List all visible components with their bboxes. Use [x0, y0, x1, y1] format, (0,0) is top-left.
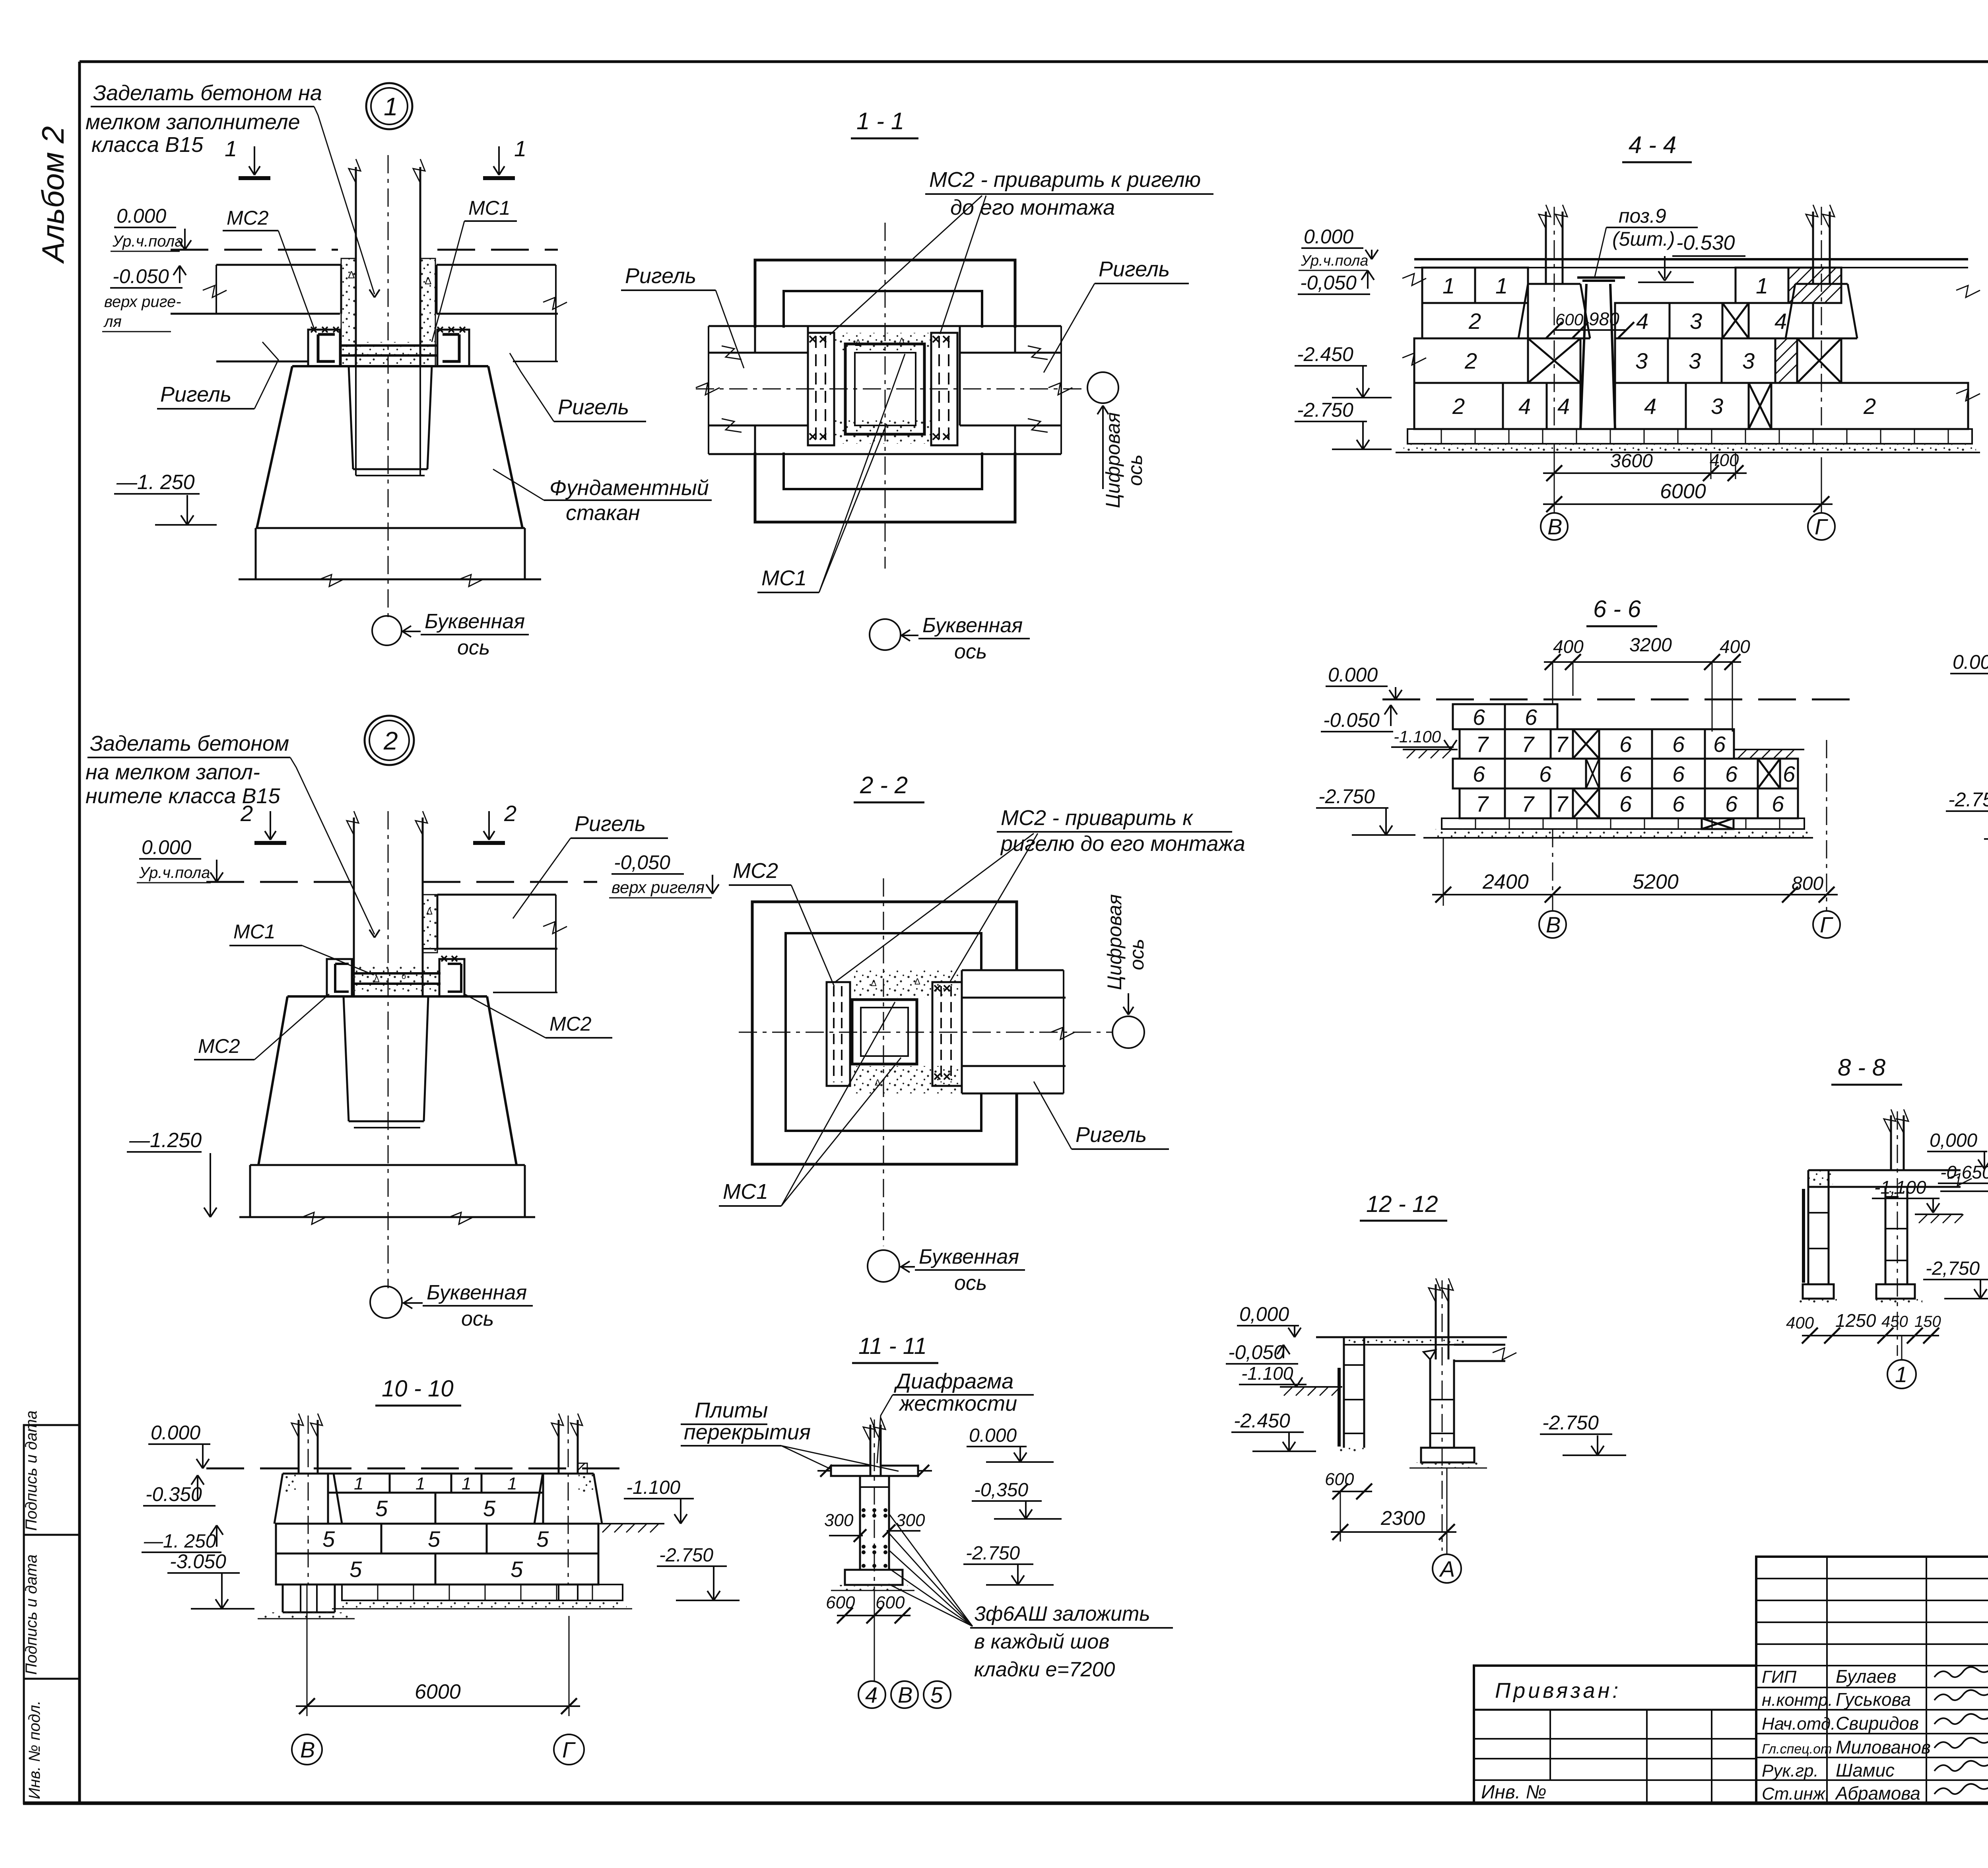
svg-text:Ур.ч.пола: Ур.ч.пола	[112, 233, 183, 250]
svg-text:на мелком запол-: на мелком запол-	[85, 760, 260, 784]
svg-text:-0,050: -0,050	[1228, 1341, 1285, 1363]
svg-text:5: 5	[428, 1526, 441, 1551]
svg-text:МС2: МС2	[227, 207, 269, 229]
svg-text:4: 4	[865, 1682, 878, 1707]
svg-text:ось: ось	[954, 1272, 987, 1295]
svg-text:3: 3	[1635, 348, 1648, 373]
svg-text:Инв. № подл.: Инв. № подл.	[26, 1701, 43, 1799]
svg-text:Милованов: Милованов	[1836, 1737, 1931, 1757]
svg-text:-1.100: -1.100	[626, 1477, 680, 1498]
svg-text:12 - 12: 12 - 12	[1366, 1191, 1438, 1217]
svg-text:Буквенная: Буквенная	[425, 610, 525, 633]
svg-text:верх ригеля: верх ригеля	[612, 878, 705, 897]
svg-text:4: 4	[1774, 309, 1787, 334]
svg-text:Подпись и дата: Подпись и дата	[23, 1554, 40, 1675]
svg-text:ля: ля	[103, 313, 122, 330]
svg-text:1: 1	[354, 1474, 363, 1493]
svg-text:0.000: 0.000	[1328, 664, 1378, 686]
svg-text:МС2: МС2	[733, 859, 778, 883]
svg-text:3200: 3200	[1629, 635, 1672, 656]
svg-text:6: 6	[1725, 761, 1738, 786]
svg-text:1: 1	[462, 1474, 471, 1493]
svg-text:5: 5	[322, 1526, 335, 1551]
svg-text:1 - 1: 1 - 1	[856, 108, 904, 134]
svg-text:МС1: МС1	[468, 197, 511, 219]
svg-text:Ур.ч.пола: Ур.ч.пола	[1301, 252, 1369, 269]
svg-text:600: 600	[1325, 1470, 1354, 1489]
svg-text:-2.750: -2.750	[1948, 788, 1988, 811]
svg-text:300: 300	[824, 1511, 854, 1530]
svg-text:6: 6	[1619, 732, 1632, 757]
svg-text:6 - 6: 6 - 6	[1593, 596, 1641, 622]
svg-text:-0,050: -0,050	[1300, 272, 1357, 294]
svg-text:6: 6	[1619, 791, 1632, 816]
svg-text:стакан: стакан	[566, 501, 640, 525]
svg-text:Гуськова: Гуськова	[1836, 1689, 1911, 1710]
svg-text:-2.750: -2.750	[1542, 1412, 1599, 1434]
svg-text:ось: ось	[1126, 939, 1148, 970]
svg-text:Рук.гр.: Рук.гр.	[1762, 1761, 1819, 1781]
svg-text:В: В	[1546, 912, 1561, 937]
svg-text:1: 1	[514, 136, 526, 161]
svg-text:-2.450: -2.450	[1234, 1410, 1290, 1432]
svg-text:-2.750: -2.750	[1318, 785, 1375, 808]
svg-text:Инв. №: Инв. №	[1481, 1782, 1546, 1803]
svg-text:ось: ось	[457, 636, 490, 659]
svg-text:0,000: 0,000	[1930, 1130, 1977, 1151]
svg-text:мелком заполнителе: мелком заполнителе	[85, 110, 300, 134]
svg-text:7: 7	[1555, 791, 1569, 816]
svg-text:1: 1	[1495, 273, 1508, 298]
svg-text:Гл.спец.от: Гл.спец.от	[1762, 1742, 1832, 1757]
svg-text:-0,050: -0,050	[614, 851, 670, 874]
svg-text:МС2: МС2	[198, 1035, 240, 1057]
svg-text:2: 2	[240, 801, 253, 826]
svg-text:400: 400	[1553, 636, 1584, 657]
svg-text:7: 7	[1522, 732, 1535, 757]
svg-text:Ригель: Ригель	[1076, 1123, 1147, 1147]
svg-text:7: 7	[1476, 732, 1489, 757]
svg-text:Буквенная: Буквенная	[919, 1245, 1019, 1268]
svg-text:Ригель: Ригель	[1099, 257, 1170, 281]
svg-text:Нач.отд.: Нач.отд.	[1762, 1714, 1835, 1734]
svg-text:2: 2	[1452, 394, 1465, 419]
svg-text:6: 6	[1772, 791, 1784, 816]
svg-text:6: 6	[1783, 761, 1796, 786]
svg-text:6: 6	[1672, 791, 1685, 816]
svg-text:кладки е=7200: кладки е=7200	[974, 1658, 1115, 1681]
svg-text:980: 980	[1589, 309, 1619, 329]
svg-text:7: 7	[1522, 791, 1535, 816]
svg-text:3600: 3600	[1610, 450, 1653, 472]
svg-text:2: 2	[504, 801, 516, 826]
svg-text:300: 300	[896, 1511, 925, 1530]
svg-text:1: 1	[1895, 1362, 1907, 1387]
svg-text:1: 1	[1442, 273, 1455, 298]
svg-text:Заделать бетоном: Заделать бетоном	[90, 732, 289, 755]
svg-text:Цифровая: Цифровая	[1102, 412, 1124, 508]
svg-text:6: 6	[1672, 761, 1685, 786]
svg-text:5: 5	[930, 1682, 943, 1707]
svg-text:0.000: 0.000	[1304, 225, 1353, 248]
svg-text:Буквенная: Буквенная	[922, 614, 1023, 637]
svg-text:Δ: Δ	[348, 269, 355, 281]
svg-text:6000: 6000	[415, 1680, 461, 1703]
svg-text:-2.750: -2.750	[1297, 399, 1353, 421]
svg-text:400: 400	[1720, 636, 1750, 657]
svg-text:-2.750: -2.750	[966, 1543, 1020, 1564]
svg-text:(5шт.): (5шт.)	[1612, 228, 1675, 250]
svg-text:4: 4	[1636, 309, 1648, 334]
svg-text:5: 5	[349, 1557, 362, 1582]
svg-text:6000: 6000	[1660, 480, 1706, 503]
svg-text:1: 1	[384, 92, 398, 121]
svg-text:7: 7	[1476, 791, 1489, 816]
svg-text:6: 6	[1539, 761, 1552, 786]
svg-text:ось: ось	[954, 640, 987, 663]
svg-text:-0.530: -0.530	[1676, 231, 1735, 254]
svg-text:6: 6	[1619, 761, 1632, 786]
svg-text:МС2: МС2	[549, 1013, 592, 1035]
svg-text:450: 450	[1881, 1313, 1908, 1330]
svg-text:-0.050: -0.050	[113, 265, 169, 287]
svg-text:В: В	[898, 1682, 912, 1707]
svg-text:800: 800	[1792, 873, 1823, 894]
svg-text:Δ: Δ	[426, 906, 433, 917]
svg-text:6: 6	[1473, 761, 1485, 786]
svg-text:В: В	[1547, 514, 1562, 539]
svg-text:Свиридов: Свиридов	[1836, 1713, 1919, 1734]
svg-text:1: 1	[1756, 273, 1768, 298]
svg-text:1: 1	[507, 1474, 517, 1493]
svg-text:Ригель: Ригель	[625, 264, 696, 288]
svg-text:2: 2	[1464, 348, 1477, 373]
svg-text:Альбом 2: Альбом 2	[35, 126, 70, 264]
svg-text:Δ: Δ	[871, 978, 877, 988]
svg-text:Заделать бетоном на: Заделать бетоном на	[93, 81, 322, 105]
svg-text:0.000: 0.000	[151, 1421, 200, 1444]
svg-text:0.000: 0.000	[142, 836, 191, 858]
svg-text:-2,750: -2,750	[1926, 1258, 1980, 1279]
svg-text:3: 3	[1689, 348, 1701, 373]
svg-text:МС1: МС1	[761, 566, 807, 590]
svg-text:-1.100: -1.100	[1394, 727, 1441, 746]
svg-text:2: 2	[1863, 394, 1876, 419]
svg-text:400: 400	[1710, 450, 1739, 470]
svg-text:-3.050: -3.050	[170, 1550, 226, 1573]
svg-text:Шамис: Шамис	[1836, 1760, 1895, 1781]
svg-text:0,000: 0,000	[1239, 1303, 1289, 1325]
svg-text:Ур.ч.пола: Ур.ч.пола	[139, 864, 210, 882]
svg-text:А: А	[1439, 1556, 1455, 1581]
svg-text:2: 2	[383, 726, 398, 755]
svg-text:Δ: Δ	[914, 977, 920, 986]
svg-text:класса В15: класса В15	[91, 133, 204, 157]
svg-text:ГИП: ГИП	[1762, 1667, 1796, 1687]
svg-text:МС2 - приварить к: МС2 - приварить к	[1001, 806, 1194, 830]
svg-text:6: 6	[1713, 732, 1726, 757]
svg-text:Г: Г	[1815, 514, 1828, 539]
svg-text:—1. 250: —1. 250	[144, 1531, 216, 1552]
svg-text:Буквенная: Буквенная	[427, 1281, 527, 1304]
svg-text:верх риге-: верх риге-	[104, 293, 181, 311]
svg-text:400: 400	[1786, 1313, 1814, 1332]
svg-text:1250: 1250	[1835, 1310, 1876, 1331]
svg-text:Г: Г	[1820, 912, 1833, 937]
svg-text:1: 1	[415, 1474, 425, 1493]
svg-text:Ст.инж.: Ст.инж.	[1762, 1784, 1830, 1804]
svg-text:5: 5	[483, 1496, 496, 1521]
svg-text:3: 3	[1742, 348, 1755, 373]
svg-text:2 - 2: 2 - 2	[860, 772, 908, 798]
svg-text:Диафрагма: Диафрагма	[894, 1369, 1013, 1393]
svg-text:-0,350: -0,350	[974, 1480, 1028, 1501]
svg-text:Цифровая: Цифровая	[1103, 894, 1126, 990]
svg-text:-0.350: -0.350	[146, 1483, 202, 1505]
svg-text:-0.050: -0.050	[1323, 709, 1380, 731]
svg-text:1: 1	[225, 136, 237, 161]
svg-text:5: 5	[536, 1526, 549, 1551]
svg-text:150: 150	[1914, 1313, 1941, 1330]
svg-text:4: 4	[1557, 394, 1570, 419]
svg-text:2400: 2400	[1482, 870, 1529, 893]
svg-text:в каждый шов: в каждый шов	[974, 1630, 1109, 1653]
svg-text:Булаев: Булаев	[1836, 1666, 1897, 1687]
svg-text:10 - 10: 10 - 10	[382, 1376, 454, 1402]
svg-text:0.000: 0.000	[969, 1425, 1017, 1446]
svg-text:В: В	[300, 1737, 315, 1762]
svg-text:Г: Г	[562, 1737, 576, 1762]
svg-text:3ф6АШ заложить: 3ф6АШ заложить	[974, 1602, 1150, 1625]
svg-text:Δ: Δ	[425, 275, 431, 287]
svg-text:2300: 2300	[1380, 1507, 1425, 1529]
svg-text:6: 6	[1525, 705, 1538, 730]
svg-text:5: 5	[511, 1557, 523, 1582]
svg-text:5200: 5200	[1633, 870, 1679, 893]
svg-text:МС1: МС1	[723, 1180, 768, 1204]
svg-text:н.контр.: н.контр.	[1762, 1690, 1833, 1710]
svg-text:МС1: МС1	[233, 920, 276, 943]
svg-text:8 - 8: 8 - 8	[1838, 1054, 1886, 1081]
svg-text:7: 7	[1555, 732, 1569, 757]
svg-text:600: 600	[1555, 310, 1584, 329]
svg-text:Привязан:: Привязан:	[1495, 1679, 1621, 1703]
svg-text:—1. 250: —1. 250	[116, 471, 195, 494]
svg-text:3: 3	[1690, 309, 1702, 334]
svg-text:до его монтажа: до его монтажа	[950, 196, 1115, 219]
svg-text:Фундаментный: Фундаментный	[549, 476, 709, 500]
svg-text:0.000: 0.000	[116, 205, 166, 227]
svg-text:Ригель: Ригель	[160, 383, 231, 406]
svg-text:-2.450: -2.450	[1297, 343, 1353, 365]
svg-text:6: 6	[1725, 791, 1738, 816]
svg-text:2: 2	[1468, 309, 1481, 334]
svg-text:-0.650: -0.650	[1940, 1162, 1988, 1183]
svg-text:4 - 4: 4 - 4	[1629, 132, 1676, 158]
svg-text:поз.9: поз.9	[1619, 205, 1666, 227]
svg-text:3: 3	[1711, 394, 1723, 419]
svg-text:-1.100: -1.100	[1241, 1363, 1293, 1384]
svg-text:Подпись и дата: Подпись и дата	[23, 1410, 40, 1531]
svg-text:5: 5	[375, 1496, 388, 1521]
svg-text:6: 6	[1672, 732, 1685, 757]
svg-text:ось: ось	[461, 1307, 494, 1330]
svg-text:11 - 11: 11 - 11	[858, 1333, 927, 1359]
svg-text:-2.750: -2.750	[659, 1545, 713, 1566]
svg-text:0.000: 0.000	[1953, 651, 1988, 673]
svg-text:ось: ось	[1124, 454, 1146, 486]
svg-text:—1.250: —1.250	[129, 1129, 202, 1152]
svg-text:Ригель: Ригель	[575, 812, 646, 836]
svg-text:МС2 - приварить к ригелю: МС2 - приварить к ригелю	[929, 168, 1201, 192]
svg-text:6: 6	[1473, 705, 1485, 730]
svg-text:Абрамова: Абрамова	[1835, 1783, 1920, 1804]
svg-text:Ригель: Ригель	[558, 395, 629, 419]
svg-text:4: 4	[1644, 394, 1656, 419]
svg-text:4: 4	[1518, 394, 1531, 419]
svg-text:Плиты: Плиты	[695, 1398, 768, 1422]
